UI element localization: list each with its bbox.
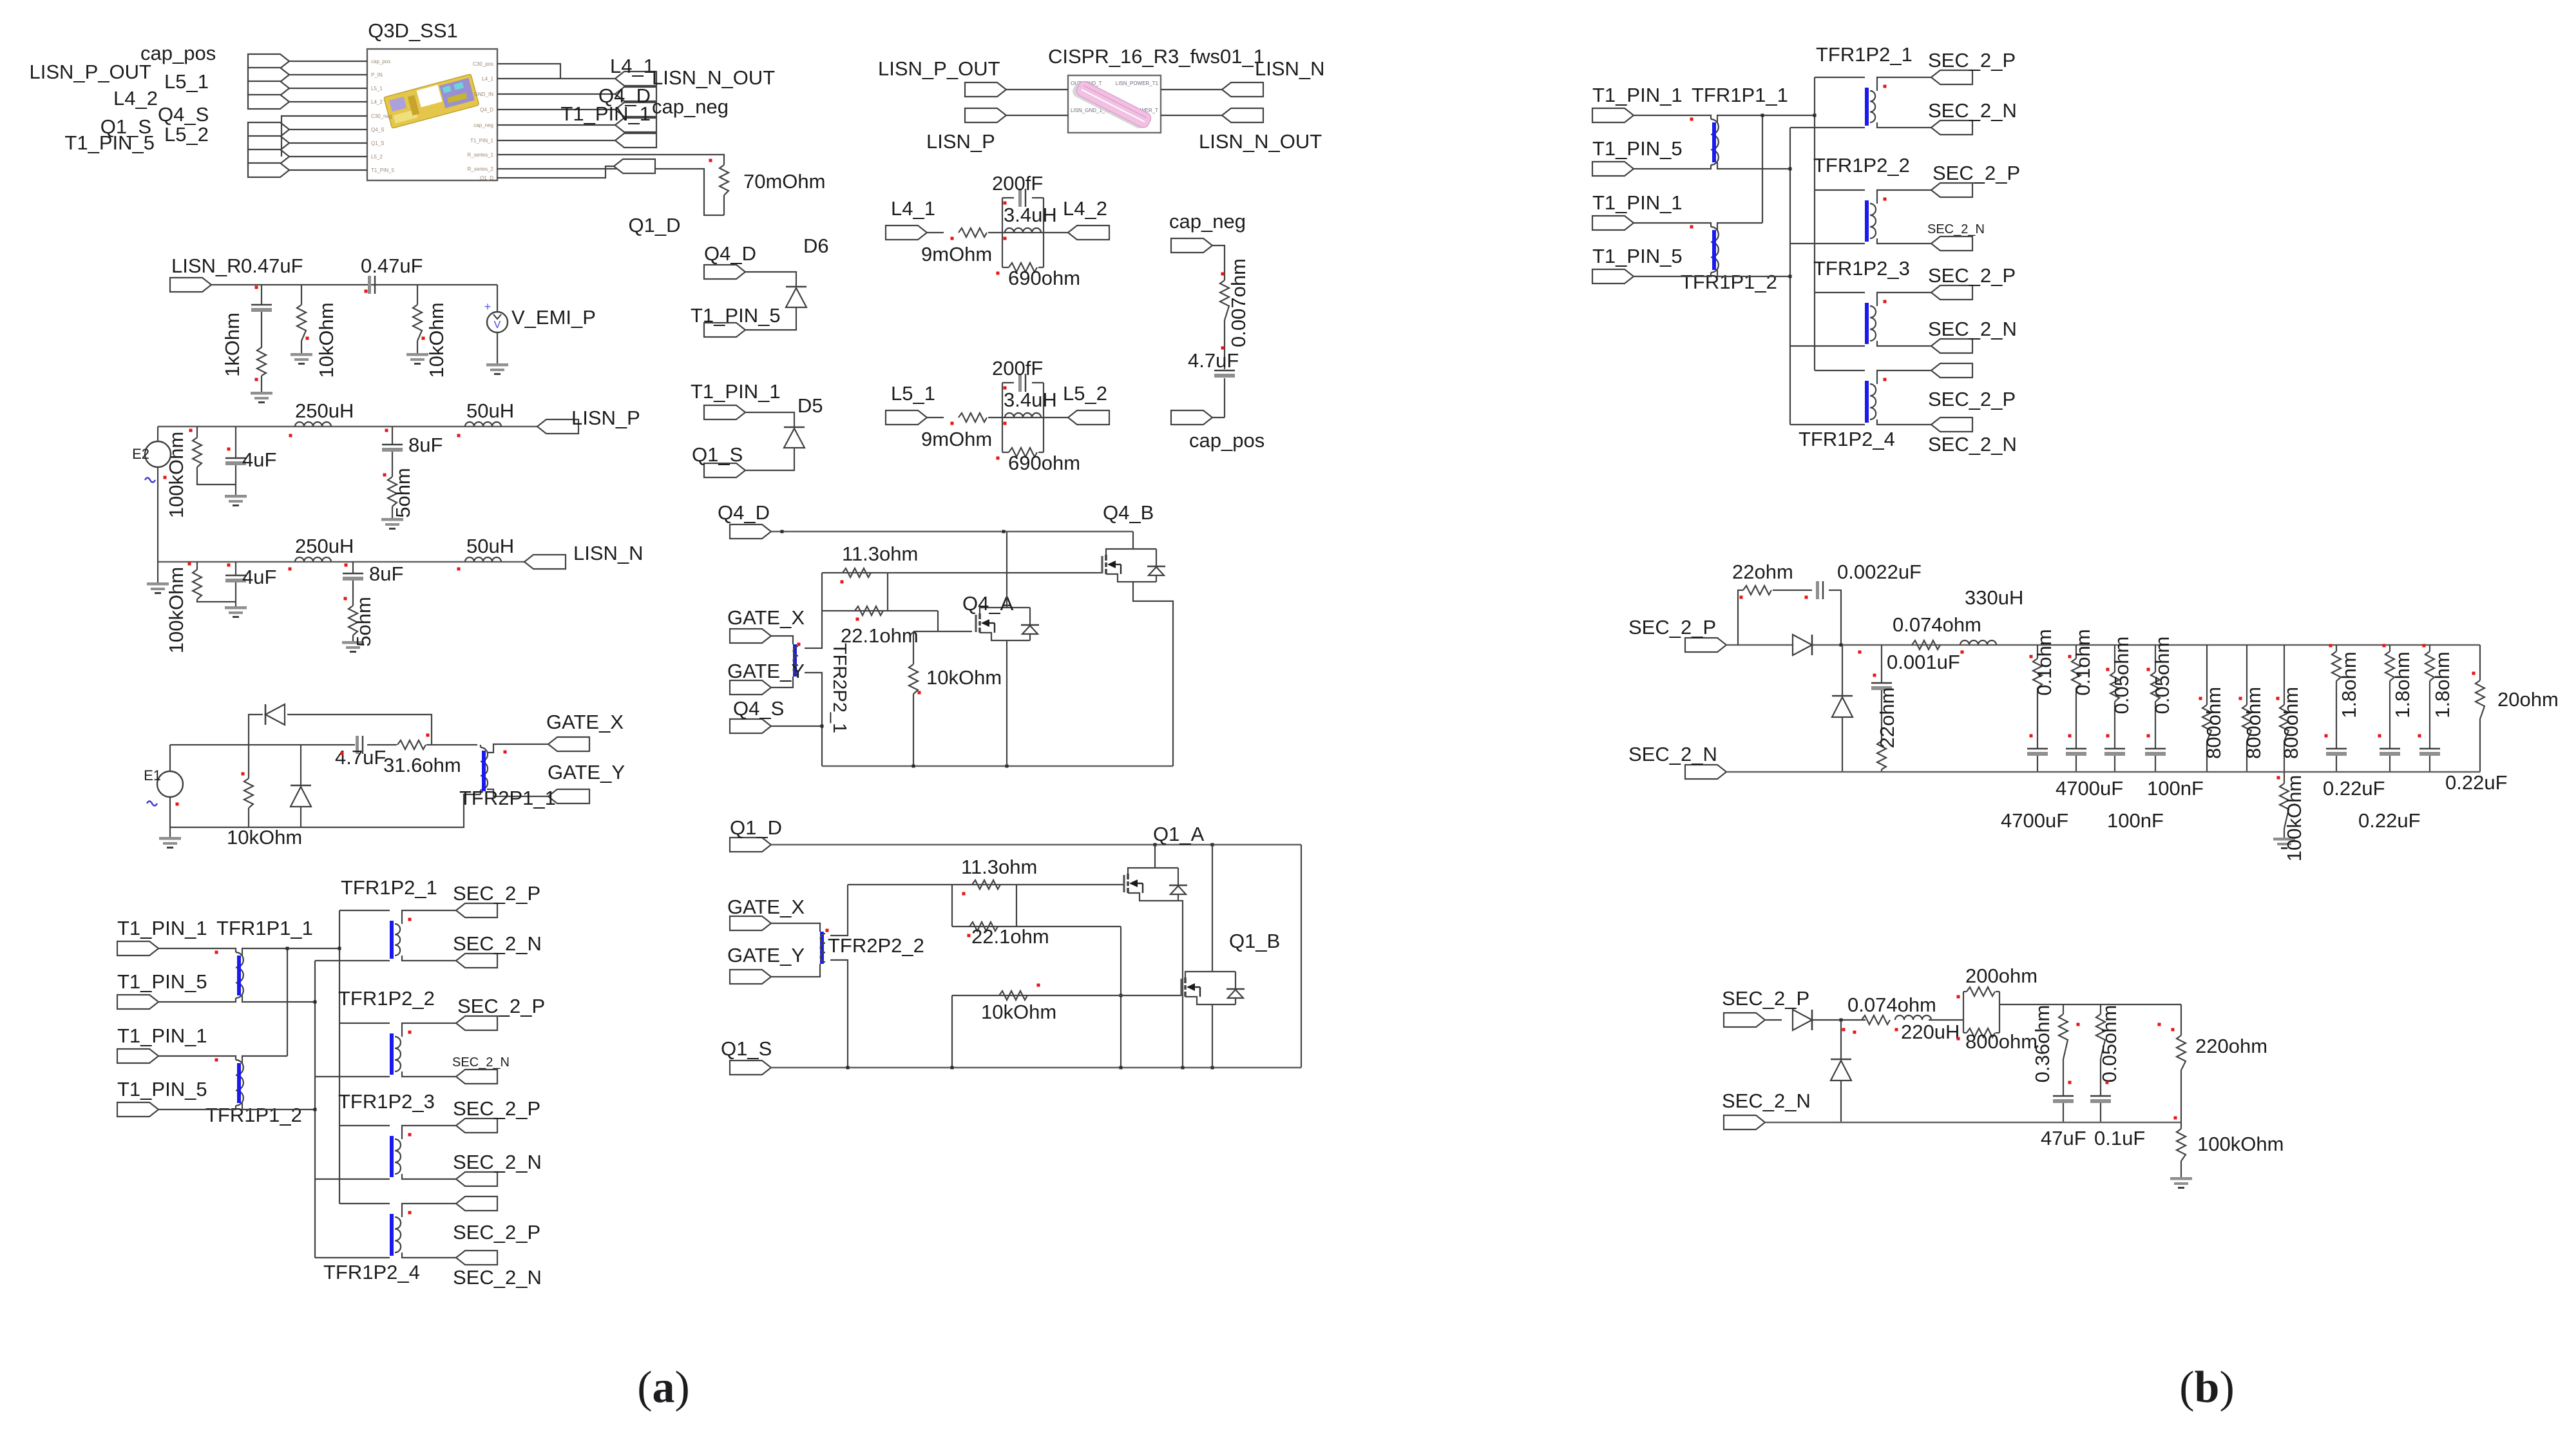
svg-text:SEC_2_N: SEC_2_N <box>1928 99 2017 122</box>
svg-text:0.0022uF: 0.0022uF <box>1837 561 1922 583</box>
svg-text:SEC_2_P: SEC_2_P <box>1928 49 2016 72</box>
resistor 22.1ohm Q1 <box>969 922 998 931</box>
wire GATE_Y to TFR2P2_2 <box>771 964 820 977</box>
svg-text:100kOhm: 100kOhm <box>2283 775 2305 861</box>
port LISN_N <box>524 555 566 569</box>
svg-text:SEC_2_N: SEC_2_N <box>1928 433 2017 456</box>
svg-text:330uH: 330uH <box>1965 586 2023 609</box>
svg-text:22.1ohm: 22.1ohm <box>841 624 919 647</box>
transformer TFR1P2_1 coil <box>1870 91 1875 122</box>
capacitor 0.47uF shunt with resistor 1kOhm to ground <box>261 285 262 304</box>
wire LISN_P to block <box>1006 115 1068 116</box>
wire TFR1P2_4 top stub <box>339 1203 390 1204</box>
wire TFR1P2_2 bottom stub <box>1790 243 1865 244</box>
capacitor 8uF <box>392 427 393 444</box>
wire port to pin y=243 <box>289 156 367 157</box>
port SEC_2_N TFR1P2_3 <box>1931 339 1972 353</box>
svg-text:4700uF: 4700uF <box>2056 777 2123 800</box>
resistor 22ohm vert <box>1877 741 1886 769</box>
svg-text:cap_pos: cap_pos <box>140 42 216 64</box>
wire LISN_P_OUT to block <box>1006 89 1068 90</box>
svg-text:SEC_2_P: SEC_2_P <box>1628 616 1716 639</box>
port GATE_Y a <box>548 789 589 803</box>
svg-text:V: V <box>494 320 501 331</box>
svg-text:3.4uH: 3.4uH <box>1004 204 1057 226</box>
port SEC_2_P TFR1P2_2 <box>1931 183 1972 197</box>
resistor 10kOhm branch 1 <box>301 285 302 305</box>
port T1_PIN_5 bank <box>117 995 158 1009</box>
port LISN_R <box>170 278 211 292</box>
wire TFR1P2_2 top stub <box>1815 189 1865 191</box>
wire gate rail2 Q1 <box>952 995 1181 996</box>
svg-text:SEC_2_N: SEC_2_N <box>1628 743 1717 765</box>
wire TFR1P2_3 top stub <box>339 1125 390 1126</box>
svg-text:TFR1P1_1: TFR1P1_1 <box>216 917 313 939</box>
svg-text:T1_PIN_1: T1_PIN_1 <box>691 380 781 403</box>
svg-text:P_IN: P_IN <box>371 72 383 78</box>
resistor 5ohm <box>348 606 358 635</box>
svg-text:4uF: 4uF <box>242 448 276 471</box>
diode clamp E1 <box>300 745 301 785</box>
svg-text:8uF: 8uF <box>408 434 443 456</box>
source E1 <box>169 745 171 771</box>
svg-text:8uF: 8uF <box>369 562 403 585</box>
svg-text:SEC_2_P: SEC_2_P <box>1928 388 2016 410</box>
svg-text:LISN_P_OUT: LISN_P_OUT <box>878 57 1000 80</box>
svg-text:L4_1: L4_1 <box>610 55 654 77</box>
wire bot bottom rail <box>1766 1122 2181 1124</box>
ladder branch at x=3163 <box>2037 645 2038 658</box>
wire GATE_Y to TFR2P2_1 <box>771 677 793 687</box>
wire pin to port y=146 <box>497 93 615 95</box>
svg-text:T1_PIN_1: T1_PIN_1 <box>117 1024 207 1047</box>
source V_EMI_P <box>497 285 498 312</box>
wire LISN_N rail <box>158 561 524 563</box>
resistor 22.1ohm Q4 <box>822 610 938 611</box>
transistor Q1_B <box>1181 972 1245 1004</box>
wire bus v2 <box>339 910 340 1204</box>
inductor 250uH <box>295 557 331 562</box>
svg-text:cap_neg: cap_neg <box>652 95 729 118</box>
svg-text:Q1_A: Q1_A <box>1153 823 1205 845</box>
port left-group1 P_IN <box>248 68 289 82</box>
wire TFR2P2_1 top lead <box>805 573 822 648</box>
ground E2 <box>147 582 169 594</box>
probe dots L5_1 <box>951 422 954 425</box>
wire port to pin y=116 <box>289 74 367 75</box>
transformer TFR1P2_4 bar <box>390 1214 394 1256</box>
wire Q4_A drain up <box>1006 532 1007 608</box>
wire to L5_2 <box>1044 417 1068 418</box>
Q3D_SS1 left pin name labels <box>371 59 395 173</box>
wire R_series_1 to 70mOhm <box>497 155 724 165</box>
resistor 10kOhm Q1 <box>999 991 1027 1000</box>
transistor Q4_B <box>1102 549 1165 582</box>
resistor 10kOhm Q4 <box>913 631 914 664</box>
svg-text:L5_2: L5_2 <box>371 154 383 160</box>
wire pin to port y=194 <box>497 124 615 126</box>
svg-text:SEC_2_N: SEC_2_N <box>1722 1090 1811 1112</box>
capacitor 200fF L5_1 <box>1002 382 1014 383</box>
parallel box L5_1 <box>1002 383 1003 452</box>
wire bus v1 <box>1762 115 1763 223</box>
svg-text:C30_neg: C30_neg <box>371 113 392 119</box>
svg-text:LISN_P: LISN_P <box>571 407 640 429</box>
right port labels <box>560 55 775 125</box>
svg-text:Q1_D: Q1_D <box>480 175 493 181</box>
svg-text:31.6ohm: 31.6ohm <box>383 754 461 776</box>
port L4_2 <box>1068 226 1109 240</box>
svg-text:11.3ohm: 11.3ohm <box>961 856 1037 878</box>
ladder branch at x=3283 <box>2114 645 2115 672</box>
svg-text:GATE_X: GATE_X <box>727 896 805 918</box>
port right GND_IN/LISN_N_OUT <box>615 87 656 101</box>
port LISN_P <box>537 419 578 434</box>
ladder branch at x=3710 <box>2389 645 2390 651</box>
capacitor 4uF <box>235 427 236 457</box>
port right T1_PIN_1 <box>615 133 656 148</box>
port SEC_2_N bot <box>1724 1115 1765 1129</box>
port L5_1 <box>886 410 927 425</box>
wire LISN_R rail <box>211 284 497 285</box>
resistor 11.3ohm Q1 <box>972 880 1000 889</box>
port T1_PIN_1 bank <box>117 941 158 956</box>
probe dots Q4 net <box>841 581 844 584</box>
resistor 100kOhm <box>196 427 198 437</box>
port SEC_2_N TFR1P2_1 <box>1931 120 1972 135</box>
resistor 10kOhm E1 <box>248 745 249 778</box>
svg-text:SEC_2_P: SEC_2_P <box>453 882 540 905</box>
resistor 22ohm <box>1743 586 1771 595</box>
wire mid bottom rail <box>1726 771 2480 773</box>
capacitor 200fF L4_1 <box>1002 197 1014 198</box>
resistor 1kOhm <box>257 347 266 376</box>
probe dots LISN_P row <box>189 429 193 432</box>
svg-text:100nF: 100nF <box>2147 777 2204 800</box>
wire TFR1P2_4 to SEC_2_P port <box>402 1204 456 1217</box>
svg-text:E1: E1 <box>144 767 161 783</box>
port left-group2 T1_PIN_5 <box>248 163 289 177</box>
port Q1_S drv <box>730 1061 771 1075</box>
capacitor 4.7uF chain <box>1214 370 1235 371</box>
port SEC_2_P TFR1P2_1 <box>456 903 497 917</box>
transformer TFR2P2_1 coil <box>794 646 798 675</box>
probe dot E2 <box>164 476 167 479</box>
wire vertical 1740 <box>1120 927 1121 1068</box>
resistor 9mOhm L5_1 <box>959 413 987 422</box>
wire port to pin y=222 <box>289 142 367 144</box>
wire pin to port y=122 <box>497 78 615 79</box>
svg-text:1.8ohm: 1.8ohm <box>2391 651 2414 718</box>
wire TFR1P2_1 bottom stub <box>315 960 390 961</box>
transformer TFR1P2_2 coil <box>1870 204 1876 238</box>
resistor 200ohm <box>1967 987 1995 996</box>
ground V_EMI_P <box>486 363 508 375</box>
diode mid shunt <box>1842 645 1843 696</box>
transformer TFR1P1_2 coil <box>1634 223 1711 227</box>
port L4_1 <box>886 226 927 240</box>
svg-text:SEC_2_N: SEC_2_N <box>452 1055 510 1070</box>
svg-text:TFR1P2_2: TFR1P2_2 <box>1813 154 1910 177</box>
transformer TFR1P2_1 bar <box>390 921 394 959</box>
ground 4uF <box>225 606 247 618</box>
wire Q1_B source down <box>1212 1004 1213 1068</box>
transformer TFR1P2_1 coil <box>395 924 400 956</box>
resistor 100kOhm <box>196 562 198 570</box>
resistor 31.6ohm <box>397 740 426 749</box>
ground E1 <box>169 827 171 837</box>
ground mid <box>2273 838 2295 849</box>
svg-text:SEC_2_P: SEC_2_P <box>453 1097 540 1120</box>
svg-text:SEC_2_N: SEC_2_N <box>453 932 542 955</box>
wire LISN_P rail <box>158 426 537 428</box>
svg-text:690ohm: 690ohm <box>1008 267 1080 289</box>
svg-text:0.22uF: 0.22uF <box>2323 777 2385 800</box>
branch 0.36ohm 47uF <box>2063 1004 2064 1014</box>
svg-text:T1_PIN_5: T1_PIN_5 <box>1592 137 1683 160</box>
svg-text:L5_2: L5_2 <box>164 123 209 146</box>
svg-text:L4_2: L4_2 <box>371 99 383 105</box>
port GATE_X q1 <box>730 916 771 930</box>
capacitor 8uF <box>352 562 354 573</box>
ladder branch at x=3772 <box>2429 645 2430 651</box>
svg-text:Q3D_SS1: Q3D_SS1 <box>368 19 458 42</box>
wire Q4 top rail <box>771 531 1133 533</box>
port left-group1 cap_pos/LISN_P_OUT <box>248 54 289 68</box>
svg-text:T1_PIN_5: T1_PIN_5 <box>691 304 781 327</box>
svg-text:L4_1: L4_1 <box>482 76 493 82</box>
wire TFR1P2_4 bottom stub <box>1790 424 1865 425</box>
wire TFR1P2_2 top stub <box>339 1023 390 1024</box>
resistor 0.074ohm bot <box>1862 1015 1890 1024</box>
svg-text:1kOhm: 1kOhm <box>221 312 243 377</box>
svg-text:T1_PIN_5: T1_PIN_5 <box>371 168 395 173</box>
transformer TFR1P1_1 coil <box>1634 115 1711 119</box>
svg-text:0.074ohm: 0.074ohm <box>1893 613 1981 636</box>
svg-text:0.1ohm: 0.1ohm <box>2072 629 2094 695</box>
svg-text:LISN_P: LISN_P <box>926 130 995 153</box>
capacitor 0.0022uF <box>1816 581 1819 599</box>
wire TFR1P2_3 to SEC_2_P port <box>1877 293 1931 306</box>
wire L5_1 to 9mOhm <box>927 417 944 418</box>
wire port to pin y=95 <box>289 61 367 62</box>
wire TFR1P2_1 to SEC_2_N port <box>1877 122 1931 128</box>
port right cap_neg <box>615 118 656 132</box>
port SEC_2_N TFR1P2_3 <box>456 1172 497 1186</box>
wire TFR1P2_4 to SEC_2_P port <box>1877 370 1931 384</box>
svg-text:22ohm: 22ohm <box>1732 561 1793 583</box>
port SEC_2_P bot <box>1724 1013 1765 1027</box>
svg-text:SEC_2_P: SEC_2_P <box>1722 987 1809 1010</box>
svg-text:cap_neg: cap_neg <box>1169 210 1246 233</box>
svg-text:0.001uF: 0.001uF <box>1887 651 1960 673</box>
svg-text:T1_PIN_1: T1_PIN_1 <box>470 138 494 144</box>
probe dots L4_1 <box>951 237 954 240</box>
wire bot rail to diode <box>1766 1019 1782 1021</box>
svg-text:LISN_N: LISN_N <box>1255 57 1325 80</box>
svg-text:LISN_N: LISN_N <box>573 542 644 564</box>
resistor 100kOhm mid with ground <box>2284 772 2285 783</box>
svg-text:Q4_B: Q4_B <box>1103 501 1154 524</box>
svg-text:9mOhm: 9mOhm <box>921 428 992 450</box>
port SEC_2_N TFR1P2_4 <box>1931 418 1972 432</box>
left port labels <box>29 42 216 154</box>
diode bot shunt <box>1840 1020 1842 1059</box>
svg-text:TFR1P2_2: TFR1P2_2 <box>338 987 435 1010</box>
port left-group1 L4_2 <box>248 95 289 109</box>
transformer TFR2P2_2 bar <box>820 932 824 964</box>
diode D6 <box>745 272 796 287</box>
svg-text:4.7uF: 4.7uF <box>1188 349 1239 372</box>
wire Q1 bottom rail <box>771 1067 1301 1069</box>
port Q1_S d5 <box>704 463 745 477</box>
svg-text:1.8ohm: 1.8ohm <box>2431 651 2454 718</box>
resistor 20ohm end <box>2479 645 2481 680</box>
wire GATE_X to TFR2P2_2 <box>771 923 820 932</box>
port SEC_2_P TFR1P2_3 <box>456 1119 497 1133</box>
svg-text:220ohm: 220ohm <box>2195 1035 2267 1057</box>
svg-text:GATE_X: GATE_X <box>546 711 624 733</box>
wire bus v3 <box>1789 128 1791 425</box>
port T1_PIN_5 bank <box>1592 162 1634 176</box>
diode mid series <box>1793 635 1812 655</box>
svg-text:R_series_1: R_series_1 <box>468 152 494 158</box>
svg-text:GATE_Y: GATE_Y <box>548 761 625 783</box>
port cap_pos <box>1171 410 1212 425</box>
wire TFR1P2_3 to SEC_2_N port <box>1877 341 1931 346</box>
svg-text:cap_neg: cap_neg <box>473 122 493 128</box>
svg-text:Q4_A: Q4_A <box>962 592 1014 615</box>
port SEC_2_P mid <box>1685 638 1726 652</box>
svg-text:Q1_B: Q1_B <box>1229 930 1280 952</box>
diode bypass branch <box>249 715 263 745</box>
port SEC_2_N TFR1P2_2 <box>456 1070 497 1084</box>
wire C30_pos jog <box>497 64 560 79</box>
port T1_PIN_1 bank <box>117 1049 158 1063</box>
port Q4_D drv <box>730 524 771 539</box>
svg-text:Q4_S: Q4_S <box>371 127 384 133</box>
svg-text:800ohm: 800ohm <box>2242 687 2265 759</box>
svg-text:TFR1P2_1: TFR1P2_1 <box>1816 43 1913 66</box>
port left-group1 L5_1 <box>248 81 289 95</box>
inductor 220uH <box>1895 1015 1931 1020</box>
parallel box L4_1 <box>1002 198 1003 267</box>
ground 10kOhm branch2 <box>406 353 428 365</box>
wire Q4_A source down <box>1006 640 1007 766</box>
svg-text:T1_PIN_5: T1_PIN_5 <box>64 131 155 154</box>
svg-text:70mOhm: 70mOhm <box>743 170 825 193</box>
transistor Q4_A <box>976 608 1039 640</box>
source E2 <box>157 427 158 441</box>
svg-text:4uF: 4uF <box>242 566 276 588</box>
CISPR pink 3D bar <box>1071 78 1153 132</box>
svg-text:CISPR_16_R3_fws01_1: CISPR_16_R3_fws01_1 <box>1048 45 1264 68</box>
port cap_neg <box>1171 238 1212 253</box>
transformer TFR2P2_2 coil <box>821 934 825 962</box>
port SEC_2_P TFR1P2_2 <box>456 1016 497 1030</box>
resistor 800ohm bot <box>1963 1032 1967 1033</box>
wire TFR1P1_2 right top <box>1717 223 1762 230</box>
wire TFR1P2_1 to SEC_2_P port <box>402 910 456 924</box>
wire TFR1P2_2 to SEC_2_N port <box>402 1071 456 1077</box>
svg-text:20ohm: 20ohm <box>2497 688 2559 711</box>
wire TFR1P2_1 top stub <box>339 910 390 911</box>
wire port to pin y=137 <box>289 88 367 89</box>
PCB artwork inside Q3D_SS1 <box>384 74 479 129</box>
wire GATE_X to TFR2P2_1 <box>771 636 793 644</box>
port LISN_N cispr <box>1222 82 1263 97</box>
svg-text:0.47uF: 0.47uF <box>361 255 423 277</box>
ladder resistor branch at x=3546 <box>2284 645 2285 705</box>
svg-text:200ohm: 200ohm <box>1965 965 2037 987</box>
wire Q1 top rail <box>771 844 1301 846</box>
svg-text:0.05ohm: 0.05ohm <box>2098 1005 2121 1083</box>
wire parallel vertical Q4 <box>887 573 888 611</box>
transformer TFR1P2_4 coil <box>395 1217 401 1253</box>
wire bus v1 <box>287 948 288 1056</box>
wire Q1_A source down <box>1178 901 1183 1068</box>
port T1_PIN_5 bank <box>117 1102 158 1117</box>
svg-text:T1_PIN_5: T1_PIN_5 <box>117 1078 207 1100</box>
svg-text:0.007ohm: 0.007ohm <box>1227 258 1250 347</box>
svg-text:LISN_POWER_T1: LISN_POWER_T1 <box>1116 81 1159 86</box>
svg-text:D5: D5 <box>797 394 823 417</box>
svg-text:Q4_S: Q4_S <box>158 103 209 126</box>
svg-text:T1_PIN_5: T1_PIN_5 <box>1592 245 1683 267</box>
transformer TFR1P1_1 bar <box>237 956 241 995</box>
svg-text:LISN_N_OUT: LISN_N_OUT <box>652 66 775 89</box>
inductor 3.4uH L4_1 <box>1002 232 1044 233</box>
probe dots E1 net <box>242 773 245 776</box>
port left-group2 Q4_S <box>248 122 289 137</box>
wire block to LISN_N <box>1161 89 1222 90</box>
port SEC_2_N TFR1P2_1 <box>456 954 497 968</box>
svg-text:TFR2P1_1: TFR2P1_1 <box>459 787 556 809</box>
wire Q1_A drain up <box>1154 845 1156 868</box>
wire TFR1P2_1 to SEC_2_N port <box>402 956 456 961</box>
svg-text:9mOhm: 9mOhm <box>921 243 992 265</box>
wire TFR1P2_4 bottom stub <box>315 1257 390 1258</box>
port left-group2 Q1_S <box>248 136 289 150</box>
wire E1 bottom rail <box>170 794 481 827</box>
ladder resistor branch at x=3426 <box>2206 645 2208 705</box>
resistor 100kOhm bot with ground <box>2180 1122 2182 1129</box>
svg-text:L5_2: L5_2 <box>1063 382 1107 405</box>
svg-text:Q4_D: Q4_D <box>704 242 756 265</box>
svg-text:1.8ohm: 1.8ohm <box>2338 651 2360 718</box>
ground 1kOhm <box>251 392 272 403</box>
wire bus v2 <box>1814 77 1815 370</box>
svg-text:T1_PIN_1: T1_PIN_1 <box>1592 191 1683 214</box>
wire TFR1P2_4 top stub <box>1815 370 1865 371</box>
port Q1_D drv <box>730 838 771 852</box>
svg-text:50uH: 50uH <box>466 535 514 557</box>
svg-text:100nF: 100nF <box>2107 809 2164 832</box>
svg-text:Q4_D: Q4_D <box>480 107 493 113</box>
svg-text:L5_1: L5_1 <box>371 86 383 91</box>
transformer TFR1P1_2 coil <box>158 1056 236 1060</box>
wire L4_1 to 9mOhm <box>927 232 944 233</box>
svg-text:(a): (a) <box>637 1363 690 1412</box>
svg-text:4700uF: 4700uF <box>2001 809 2068 832</box>
port T1_PIN_5 d6 <box>704 323 745 337</box>
transformer TFR1P2_2 bar <box>1865 200 1869 242</box>
svg-text:11.3ohm: 11.3ohm <box>842 543 918 565</box>
wire port to pin y=264 <box>289 169 367 171</box>
port SEC_2_N TFR1P2_4 <box>456 1251 497 1265</box>
wire TFR1P1_1 right bottom <box>1717 162 1790 169</box>
svg-text:L4_2: L4_2 <box>1063 197 1107 220</box>
